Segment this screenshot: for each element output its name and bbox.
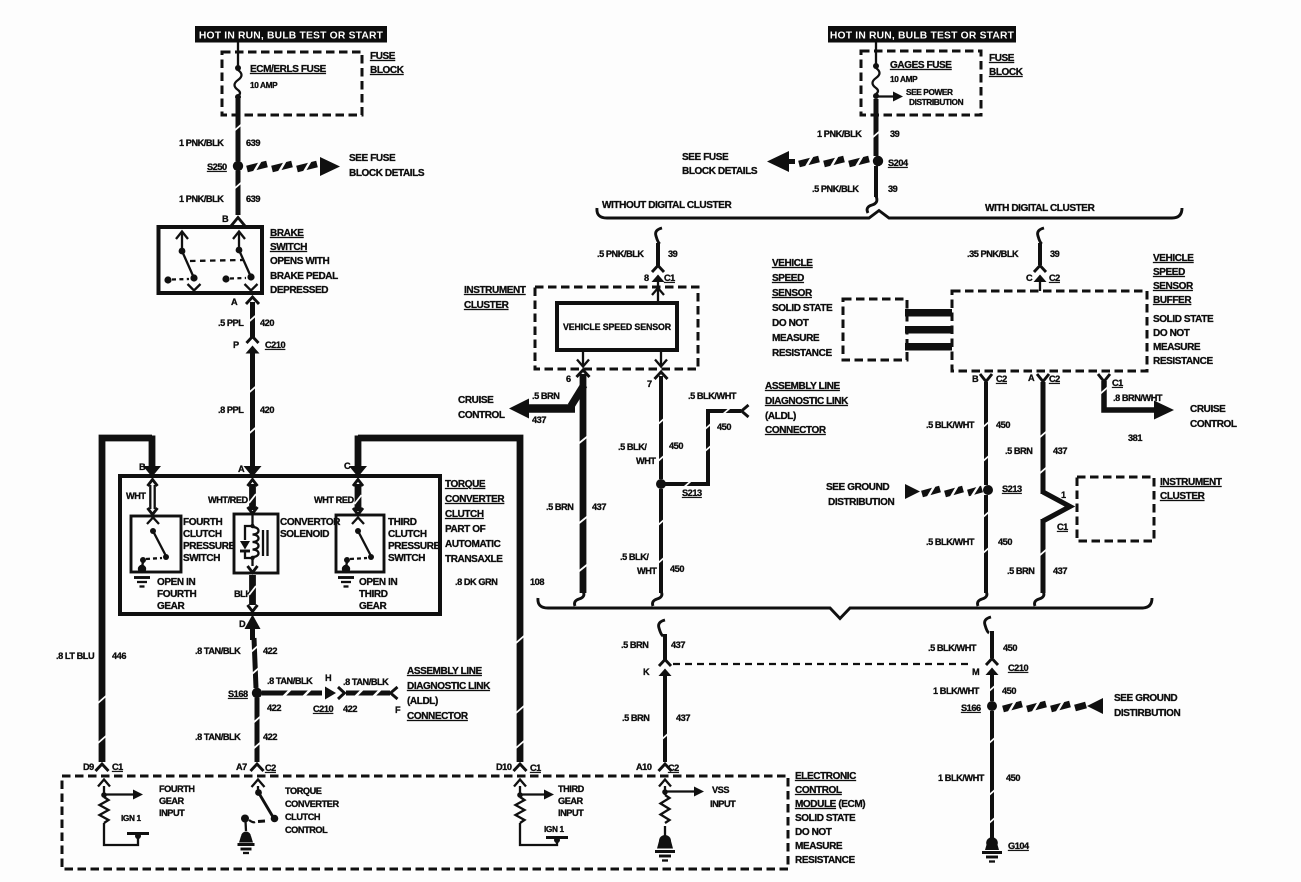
hatched arrow SEE GROUND DISTIRBUTION (S166)	[1003, 698, 1103, 714]
wire .5 PPL 420	[249, 302, 257, 337]
ECM third gear input branch	[514, 780, 557, 846]
ECM box (dashed)	[62, 776, 788, 869]
svg-text:GEAR: GEAR	[157, 601, 185, 612]
wire into buffer	[1039, 282, 1041, 291]
label 1 BLK/WHT 450 (lower)	[938, 773, 1020, 783]
svg-text:DO NOT: DO NOT	[1153, 328, 1190, 339]
svg-text:CONNECTOR: CONNECTOR	[765, 425, 827, 436]
svg-text:8: 8	[644, 273, 649, 283]
svg-text:WHT: WHT	[126, 491, 146, 501]
svg-text:P: P	[233, 340, 239, 350]
dashed link K to M (C210)	[673, 663, 968, 665]
label ELECTRONIC CONTROL MODULE (ECM) SOLID STATE DO NOT MEASURE RESISTANCE	[795, 771, 865, 866]
svg-text:420: 420	[260, 318, 274, 328]
svg-text:.5 BRN: .5 BRN	[1007, 566, 1035, 576]
label .5 BLK/ WHT 450 (upper)	[618, 441, 683, 466]
svg-text:S250: S250	[207, 162, 227, 172]
svg-text:WITHOUT DIGITAL CLUSTER: WITHOUT DIGITAL CLUSTER	[602, 200, 732, 211]
svg-text:437: 437	[1053, 566, 1067, 576]
wire .35 PNK/BLK 39	[1038, 243, 1042, 265]
svg-text:.8 TAN/BLK: .8 TAN/BLK	[343, 677, 389, 687]
label SEE GROUND DISTRIBUTION (left text)	[826, 482, 894, 508]
svg-text:.5 BLK/WHT: .5 BLK/WHT	[926, 537, 975, 547]
svg-text:CRUISE: CRUISE	[458, 395, 494, 406]
svg-text:MEASURE: MEASURE	[772, 333, 820, 344]
svg-text:SEE POWER: SEE POWER	[906, 87, 953, 97]
svg-text:MEASURE: MEASURE	[1153, 342, 1201, 353]
label SEE POWER DISTRIBUTION	[906, 87, 964, 107]
label .5 BLK/WHT 450 (ALDL branch)	[688, 391, 737, 432]
fuse block box (left, dashed)	[222, 52, 362, 115]
svg-text:DIAGNOSTIC LINK: DIAGNOSTIC LINK	[765, 396, 849, 407]
svg-text:BLOCK: BLOCK	[989, 67, 1024, 78]
wire break curl (right branch top)	[1038, 228, 1044, 244]
banner HOT IN RUN (right)	[828, 26, 1016, 43]
svg-text:.5 BLK/WHT: .5 BLK/WHT	[928, 643, 977, 653]
svg-text:SWITCH: SWITCH	[183, 553, 220, 564]
svg-text:DISTRIBUTION: DISTRIBUTION	[909, 97, 964, 107]
svg-text:.35 PNK/BLK: .35 PNK/BLK	[967, 249, 1019, 259]
svg-text:PART OF: PART OF	[445, 524, 486, 535]
label .8 BRN/WHT 381	[1113, 393, 1163, 443]
svg-text:450: 450	[670, 564, 684, 574]
instrument cluster box (dashed, right)	[1077, 477, 1154, 541]
svg-text:CLUSTER: CLUSTER	[464, 300, 510, 311]
svg-text:SENSOR: SENSOR	[1153, 281, 1194, 292]
svg-text:A: A	[231, 297, 238, 307]
svg-text:S168: S168	[228, 689, 248, 699]
label ASSEMBLY LINE DIAGNOSTIC LINK (ALDL) CONNECTOR (right)	[765, 381, 849, 436]
svg-text:ELECTRONIC: ELECTRONIC	[795, 771, 856, 782]
svg-text:A7: A7	[236, 762, 247, 772]
label INSTRUMENT CLUSTER (left)	[464, 285, 526, 311]
svg-text:INSTRUMENT: INSTRUMENT	[464, 285, 526, 296]
svg-text:BRAKE PEDAL: BRAKE PEDAL	[270, 271, 338, 282]
svg-text:HOT IN RUN, BULB TEST OR START: HOT IN RUN, BULB TEST OR START	[199, 31, 384, 42]
pin 6 fork	[566, 370, 590, 384]
wire .5 BRN 437 (buffer A down)	[1039, 382, 1047, 494]
svg-text:SOLID STATE: SOLID STATE	[795, 813, 856, 824]
ground G104	[982, 837, 1030, 861]
svg-text:C1: C1	[530, 763, 541, 773]
label FUSE BLOCK (right)	[989, 53, 1024, 78]
svg-text:ECM/ERLS FUSE: ECM/ERLS FUSE	[250, 64, 327, 75]
wire .5 BRN 437 (K to A10)	[661, 676, 669, 762]
svg-text:C1: C1	[112, 762, 123, 772]
svg-text:437: 437	[671, 640, 685, 650]
wire break curl (right BRN above lower brace)	[1035, 591, 1044, 606]
VSS output arrow pin 6	[577, 350, 589, 367]
svg-text:.5 BLK/WHT: .5 BLK/WHT	[926, 420, 975, 430]
svg-text:THIRD: THIRD	[359, 589, 388, 600]
label CRUISE CONTROL (right)	[1190, 404, 1237, 430]
svg-text:SOLID STATE: SOLID STATE	[1153, 314, 1214, 325]
svg-text:DISTRIBUTION: DISTRIBUTION	[828, 497, 894, 508]
wire 1 BLK/WHT 450 (S166 to G104)	[988, 711, 996, 839]
splice S213 (left)	[656, 479, 702, 498]
wire break curl (below lower brace right)	[985, 617, 991, 633]
convertor solenoid	[234, 514, 278, 573]
svg-text:GEAR: GEAR	[159, 796, 185, 806]
svg-text:437: 437	[676, 713, 690, 723]
label VSS INPUT	[710, 785, 736, 809]
label CONVERTOR SOLENOID	[280, 517, 341, 540]
svg-text:CRUISE: CRUISE	[1190, 404, 1226, 415]
svg-text:422: 422	[267, 703, 281, 713]
svg-text:M: M	[972, 667, 980, 677]
svg-text:C210: C210	[265, 340, 286, 350]
see power distribution arrow	[876, 92, 903, 102]
svg-text:39: 39	[1050, 249, 1060, 259]
splice S204	[873, 156, 909, 168]
svg-text:C1: C1	[1057, 522, 1068, 532]
ground (TCC control)	[238, 832, 255, 854]
wire break curl (right BLK/WHT above lower brace)	[978, 591, 987, 606]
label INSTRUMENT CLUSTER (right)	[1160, 477, 1222, 502]
svg-text:.8 TAN/BLK: .8 TAN/BLK	[195, 646, 241, 656]
svg-text:.8 LT BLU: .8 LT BLU	[56, 651, 95, 661]
pin D10 C1	[496, 762, 541, 773]
svg-text:BUFFER: BUFFER	[1153, 295, 1192, 306]
pin 7 fork	[647, 372, 668, 389]
label ASSEMBLY LINE DIAGNOSTIC LINK (ALDL) CONNECTOR (left)	[407, 666, 491, 722]
wire banner to fuse F1	[237, 42, 239, 66]
hatched arrow SEE GROUND DISTRIBUTION (S213)	[905, 484, 982, 499]
ground (third clutch switch)	[338, 565, 354, 587]
splice S213 (right)	[983, 484, 1022, 495]
svg-text:1 PNK/BLK: 1 PNK/BLK	[179, 194, 224, 204]
label SEE GROUND DISTIRBUTION (right text)	[1114, 693, 1180, 719]
buffer pin B C2	[972, 374, 1007, 384]
label FOURTH CLUTCH PRESSURE SWITCH	[183, 517, 236, 564]
sensor-buffer link bars	[905, 309, 952, 351]
svg-text:PRESSURE: PRESSURE	[183, 541, 236, 552]
svg-text:TRANSAXLE: TRANSAXLE	[445, 554, 503, 565]
svg-text:GEAR: GEAR	[359, 601, 387, 612]
top brace (without/with digital cluster)	[597, 208, 1182, 218]
wire .5 BLK/WHT 450 (buffer B down)	[982, 382, 990, 485]
label TORQUE CONVERTER CLUTCH CONTROL	[285, 786, 339, 835]
label .5 BLK/WHT 450 (upper right)	[926, 420, 1010, 430]
svg-text:450: 450	[996, 420, 1010, 430]
svg-text:437: 437	[1053, 446, 1067, 456]
svg-text:10 AMP: 10 AMP	[250, 80, 278, 90]
wire WHT (B to fourth clutch switch)	[148, 480, 158, 515]
svg-text:C2: C2	[1049, 273, 1060, 283]
svg-text:446: 446	[112, 651, 126, 661]
svg-text:SPEED: SPEED	[1153, 267, 1185, 278]
svg-text:.8 BRN/WHT: .8 BRN/WHT	[1113, 393, 1163, 403]
svg-text:CONVERTER: CONVERTER	[285, 799, 339, 809]
label .8 DK GRN 108	[455, 577, 544, 587]
svg-text:C210: C210	[313, 704, 334, 714]
wire BLK (solenoid to D)	[248, 575, 258, 612]
pin B brake switch	[222, 214, 245, 226]
connector C210 (ALDL run)	[325, 687, 345, 700]
hatched arrow SEE FUSE BLOCK DETAILS (right)	[767, 151, 869, 172]
label .5 PNK/BLK 39 (left branch)	[597, 249, 678, 259]
connector C2 pin C	[1026, 266, 1060, 284]
label THIRD GEAR INPUT	[558, 784, 585, 818]
fork to instrument cluster pin 1 C1	[1043, 490, 1070, 532]
wire WHT/RED (A to solenoid)	[248, 480, 258, 514]
svg-text:GAGES FUSE: GAGES FUSE	[890, 60, 952, 71]
svg-text:C1: C1	[1112, 378, 1123, 388]
svg-text:437: 437	[592, 502, 606, 512]
svg-text:6: 6	[566, 374, 571, 384]
svg-text:CLUTCH: CLUTCH	[285, 812, 321, 822]
label SEE FUSE BLOCK DETAILS (right)	[682, 152, 758, 177]
svg-text:B: B	[139, 462, 146, 472]
svg-text:.5 PNK/BLK: .5 PNK/BLK	[597, 249, 644, 259]
svg-text:1: 1	[1061, 490, 1066, 500]
svg-text:D: D	[239, 619, 246, 629]
pin A10 C2	[636, 762, 679, 773]
ground (fourth clutch switch)	[134, 565, 150, 587]
svg-text:RESISTANCE: RESISTANCE	[1153, 356, 1213, 367]
svg-text:450: 450	[998, 537, 1012, 547]
svg-text:437: 437	[532, 415, 546, 425]
thick wire C branch (WHT RED to D10)	[349, 436, 524, 763]
cruise control arrow (right) .8 BRN/WHT 381	[1100, 381, 1174, 420]
thick wire .5 BRN 437 (pin 6 down)	[578, 374, 588, 593]
svg-text:OPEN IN: OPEN IN	[157, 577, 195, 588]
svg-text:THIRD: THIRD	[388, 517, 417, 528]
svg-text:D9: D9	[83, 762, 94, 772]
buffer pin C1	[1098, 374, 1123, 388]
svg-text:CLUTCH: CLUTCH	[388, 529, 427, 540]
wire .5 BLK/WHT 450 to ALDL connector	[665, 405, 749, 488]
label .8 TAN/BLK 422 (lower)	[195, 732, 277, 742]
wire .8 TAN/BLK 422 H (S168 to C210)	[262, 688, 322, 697]
svg-text:FOURTH: FOURTH	[183, 517, 222, 528]
label VEHICLE SPEED SENSOR SOLID STATE DO NOT MEASURE RESISTANCE (left of sensor)	[772, 258, 833, 359]
svg-text:OPENS WITH: OPENS WITH	[270, 256, 330, 267]
wire break curl (below lower brace left)	[659, 620, 665, 636]
svg-text:DO NOT: DO NOT	[795, 827, 832, 838]
svg-text:C: C	[1026, 273, 1033, 283]
wire break curl (BLK/WHT above lower brace)	[653, 591, 662, 606]
svg-text:C2: C2	[265, 763, 276, 773]
svg-text:SWITCH: SWITCH	[270, 242, 307, 253]
IGN 1 terminal (third gear)	[544, 824, 568, 843]
svg-text:HOT IN RUN, BULB TEST OR START: HOT IN RUN, BULB TEST OR START	[830, 31, 1015, 42]
third clutch pressure switch	[336, 515, 384, 572]
svg-text:FUSE: FUSE	[989, 53, 1015, 64]
svg-text:C210: C210	[1008, 663, 1029, 673]
label .5 BRN 437 (A10)	[622, 713, 690, 723]
svg-text:MODULE (ECM): MODULE (ECM)	[795, 799, 865, 810]
svg-text:39: 39	[890, 129, 900, 139]
cruise control arrow (left)	[509, 385, 584, 419]
svg-text:CONTROL: CONTROL	[795, 785, 842, 796]
svg-text:IGN 1: IGN 1	[121, 813, 141, 823]
wire 1 PNK/BLK 639 (fuse to S250)	[234, 99, 242, 161]
svg-text:450: 450	[717, 422, 731, 432]
svg-text:S213: S213	[682, 488, 702, 498]
svg-text:WHT/RED: WHT/RED	[208, 495, 249, 505]
wire 1 PNK/BLK 39 (fuse to S204)	[872, 99, 880, 156]
label VEHICLE SPEED SENSOR BUFFER SOLID STATE DO NOT MEASURE RESISTANCE (right)	[1153, 253, 1214, 367]
label .5 BLK/WHT 450 (lower right)	[926, 537, 1012, 547]
svg-text:A10: A10	[636, 762, 652, 772]
ground (VSS input)	[655, 835, 675, 861]
svg-text:.5 PNK/BLK: .5 PNK/BLK	[812, 184, 859, 194]
IGN 1 terminal (fourth gear)	[121, 813, 149, 839]
wire banner to fuse F2	[875, 42, 877, 64]
svg-text:C2: C2	[996, 374, 1007, 384]
svg-text:450: 450	[1003, 643, 1017, 653]
label SEE FUSE BLOCK DETAILS (left)	[349, 153, 425, 179]
svg-text:CONNECTOR: CONNECTOR	[407, 711, 469, 722]
svg-text:AUTOMATIC: AUTOMATIC	[445, 539, 501, 550]
splice S166	[961, 701, 997, 713]
wire .5 BLK/WHT 450 (brace to M)	[990, 631, 994, 658]
svg-text:SEE GROUND: SEE GROUND	[826, 482, 889, 493]
svg-text:CONTROL: CONTROL	[1190, 419, 1237, 430]
torque converter clutch box	[120, 476, 440, 614]
hatched arrow SEE FUSE BLOCK DETAILS	[247, 157, 340, 176]
buffer pin A C2	[1028, 373, 1060, 384]
label .8 TAN/BLK 422 (upper)	[195, 646, 277, 656]
connector C1 pin 8	[644, 266, 675, 284]
svg-text:.5 BLK/: .5 BLK/	[618, 442, 647, 452]
svg-text:.8 PPL: .8 PPL	[218, 405, 244, 415]
wire .5 BLK/WHT 450 (S213 down)	[657, 489, 665, 593]
svg-text:TORQUE: TORQUE	[285, 786, 322, 796]
svg-text:SPEED: SPEED	[772, 273, 804, 284]
svg-text:SOLID STATE: SOLID STATE	[772, 303, 833, 314]
label 422 C210 422 F	[267, 703, 401, 715]
svg-text:CONVERTOR: CONVERTOR	[280, 517, 341, 528]
label .5 BLK/ WHT 450 (lower)	[620, 552, 684, 576]
wire .5 PNK/BLK 39 (S204 down)	[874, 166, 878, 197]
thick wire B branch (WHT to D9)	[98, 436, 161, 763]
wire .8 TAN/BLK 422 (S168 to A7)	[253, 698, 261, 762]
svg-text:RESISTANCE: RESISTANCE	[795, 855, 855, 866]
label .5 BRN 437 (K upper)	[621, 640, 685, 650]
svg-text:C2: C2	[1049, 374, 1060, 384]
svg-text:.5 BRN: .5 BRN	[621, 640, 649, 650]
svg-text:VEHICLE: VEHICLE	[772, 258, 813, 269]
svg-text:.8 DK GRN: .8 DK GRN	[455, 577, 498, 587]
svg-text:FOURTH: FOURTH	[157, 589, 196, 600]
wire into instrument cluster	[652, 282, 664, 303]
label THIRD CLUTCH PRESSURE SWITCH	[388, 517, 441, 564]
svg-text:450: 450	[669, 441, 683, 451]
label .5 BRN 437 (cruise)	[532, 391, 560, 425]
label .5 BRN 437 (mid)	[546, 502, 606, 512]
wire .8 PPL 420	[249, 353, 257, 466]
svg-text:10 AMP: 10 AMP	[890, 74, 918, 84]
svg-text:381: 381	[1128, 433, 1142, 443]
svg-text:.8 TAN/BLK: .8 TAN/BLK	[267, 676, 313, 686]
svg-text:SWITCH: SWITCH	[388, 553, 425, 564]
svg-text:S166: S166	[961, 703, 981, 713]
svg-text:450: 450	[1006, 773, 1020, 783]
svg-text:VEHICLE: VEHICLE	[1153, 253, 1194, 264]
svg-text:S213: S213	[1002, 484, 1022, 494]
svg-text:TORQUE: TORQUE	[445, 479, 486, 490]
svg-text:(ALDL): (ALDL)	[407, 696, 438, 707]
svg-text:CLUTCH: CLUTCH	[183, 529, 222, 540]
wire break curl (above top brace)	[867, 196, 877, 213]
splice S250	[207, 161, 243, 172]
vehicle speed sensor buffer box (dashed)	[952, 291, 1147, 371]
svg-text:IGN 1: IGN 1	[544, 824, 564, 834]
svg-text:INPUT: INPUT	[159, 808, 185, 818]
terminal F fork	[391, 687, 398, 699]
svg-text:422: 422	[263, 732, 277, 742]
label OPEN IN THIRD GEAR	[359, 577, 397, 612]
svg-text:VSS: VSS	[712, 785, 729, 795]
svg-text:K: K	[643, 667, 650, 677]
svg-text:.5 BLK/: .5 BLK/	[620, 552, 649, 562]
label 1 PNK/BLK 39	[817, 129, 900, 139]
svg-text:.5 BLK/WHT: .5 BLK/WHT	[688, 391, 737, 401]
vehicle speed sensor box (dashed, small)	[843, 299, 907, 360]
pin D9 C1	[83, 762, 123, 772]
svg-text:39: 39	[668, 249, 678, 259]
svg-text:B: B	[972, 374, 979, 384]
pin A TCC arrowhead	[238, 464, 262, 477]
svg-text:BLOCK DETAILS: BLOCK DETAILS	[349, 168, 425, 179]
label TORQUE CONVERTER CLUTCH PART OF AUTOMATIC TRANSAXLE	[445, 479, 505, 565]
svg-text:INPUT: INPUT	[558, 808, 584, 818]
label .35 PNK/BLK 39	[967, 249, 1060, 259]
svg-text:CONTROL: CONTROL	[285, 825, 328, 835]
fourth clutch pressure switch	[131, 516, 181, 572]
svg-text:BLOCK: BLOCK	[370, 65, 405, 76]
svg-text:(ALDL): (ALDL)	[765, 411, 796, 422]
svg-text:G104: G104	[1008, 841, 1030, 851]
svg-text:.5 BRN: .5 BRN	[546, 502, 574, 512]
svg-text:ASSEMBLY LINE: ASSEMBLY LINE	[407, 666, 483, 677]
svg-text:CONVERTER: CONVERTER	[445, 494, 505, 505]
svg-text:ASSEMBLY LINE: ASSEMBLY LINE	[765, 381, 841, 392]
VSS output arrow pin 7	[655, 350, 667, 367]
svg-text:DIAGNOSTIC LINK: DIAGNOSTIC LINK	[407, 681, 491, 692]
svg-text:WHT RED: WHT RED	[314, 495, 355, 505]
svg-text:CLUTCH: CLUTCH	[445, 509, 484, 520]
svg-text:RESISTANCE: RESISTANCE	[772, 348, 832, 359]
svg-text:SEE FUSE: SEE FUSE	[682, 152, 729, 163]
svg-text:H: H	[325, 673, 332, 683]
wire 1 BLK/WHT 450 (M to S166)	[988, 675, 996, 701]
svg-text:BRAKE: BRAKE	[270, 228, 304, 239]
svg-text:1 BLK/WHT: 1 BLK/WHT	[938, 773, 985, 783]
svg-text:DEPRESSED: DEPRESSED	[270, 285, 328, 296]
svg-text:39: 39	[888, 184, 898, 194]
fuse GAGES 10A symbol	[873, 63, 880, 99]
svg-text:BLOCK DETAILS: BLOCK DETAILS	[682, 166, 758, 177]
svg-text:OPEN IN: OPEN IN	[359, 577, 397, 588]
svg-text:INPUT: INPUT	[710, 799, 736, 809]
svg-text:108: 108	[530, 577, 544, 587]
svg-text:1 PNK/BLK: 1 PNK/BLK	[817, 129, 862, 139]
svg-text:SENSOR: SENSOR	[772, 288, 813, 299]
svg-text:DO NOT: DO NOT	[772, 318, 809, 329]
brake switch box	[159, 227, 263, 293]
svg-text:A: A	[238, 464, 245, 474]
svg-text:1 PNK/BLK: 1 PNK/BLK	[179, 138, 224, 148]
pin D arrow into TCC box	[239, 615, 261, 641]
connector C210 pin P	[233, 337, 286, 354]
label BRAKE SWITCH OPENS WITH BRAKE PEDAL DEPRESSED	[270, 228, 338, 296]
svg-text:CONTROL: CONTROL	[458, 410, 505, 421]
connector C210 pin K	[643, 660, 672, 678]
svg-text:DISTIRBUTION: DISTIRBUTION	[1114, 708, 1180, 719]
